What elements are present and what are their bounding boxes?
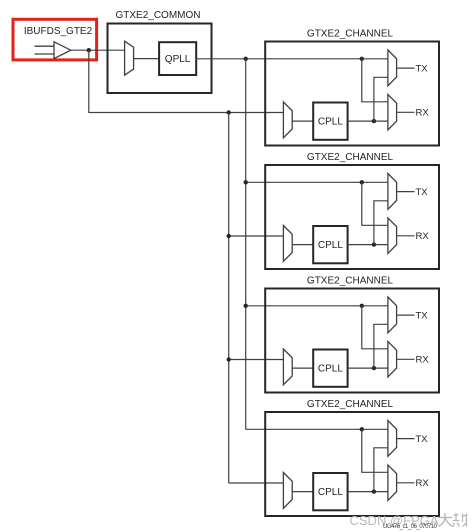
wire QPLL branch to RX mux ch1: [362, 59, 388, 102]
svg-text:TX: TX: [416, 64, 429, 75]
junction QPLL feed ch4: [360, 427, 364, 431]
wire refclk feed channel 3: [229, 359, 284, 361]
junction CPLL output ch2: [372, 242, 376, 246]
wire RX output ch4: [397, 482, 415, 484]
wire CPLL branch to TX mux ch4: [374, 448, 388, 492]
wire refclk feed channel 2: [229, 235, 284, 237]
svg-text:GTXE2_CHANNEL: GTXE2_CHANNEL: [307, 399, 394, 410]
buffer IBUFDS_GTE2: [35, 42, 71, 59]
junction QPLL feed ch2: [360, 180, 364, 184]
mux TX clock ch3: [388, 297, 397, 333]
wire CPLL branch to TX mux ch3: [374, 324, 388, 368]
wire refclk feed channel 4: [229, 482, 284, 484]
wire refclk horizontal ch1: [89, 112, 284, 114]
junction refclk bus top: [227, 110, 231, 114]
mux TX clock ch1: [388, 50, 397, 86]
svg-text:GTXE2_COMMON: GTXE2_COMMON: [115, 10, 200, 21]
junction QPLL bus channel 2: [244, 180, 248, 184]
svg-text:RX: RX: [416, 108, 430, 119]
mux TX clock ch2: [388, 174, 397, 210]
mux TX clock ch4: [388, 421, 397, 457]
svg-text:CPLL: CPLL: [318, 240, 343, 251]
box CPLL ch3: [313, 350, 347, 387]
wire buffer output to common mux: [71, 49, 125, 51]
junction refclk bus channel 3: [227, 357, 231, 361]
wire RX output ch3: [397, 358, 415, 360]
junction refclk bus channel 2: [227, 234, 231, 238]
junction QPLL bus channel 3: [244, 304, 248, 308]
junction QPLL feed ch1: [360, 57, 364, 61]
svg-text:IBUFDS_GTE2: IBUFDS_GTE2: [24, 26, 93, 37]
wire CPLL output ch2: [348, 244, 388, 246]
mux CPLL refclk select ch1: [283, 102, 292, 138]
svg-text:CPLL: CPLL: [318, 364, 343, 375]
wire mux to CPLL ch2: [292, 244, 313, 246]
wire CPLL branch to TX mux ch2: [374, 201, 388, 245]
wire CPLL output ch4: [348, 491, 388, 493]
wire QPLL feed channel 2: [246, 181, 388, 183]
wire refclk vertical bus: [228, 113, 230, 484]
wire CPLL branch to TX mux ch1: [374, 77, 388, 121]
box GTXE2_CHANNEL 4: [265, 412, 439, 516]
mux RX clock ch4: [388, 465, 397, 501]
svg-text:GTXE2_CHANNEL: GTXE2_CHANNEL: [307, 29, 394, 40]
mux RX clock ch1: [388, 94, 397, 129]
wire RX output ch2: [397, 235, 415, 237]
box QPLL: [159, 42, 196, 75]
wire refclk drop down: [88, 50, 90, 113]
watermark glyph SHU: [453, 513, 467, 527]
wire TX output ch2: [397, 191, 415, 193]
svg-text:CPLL: CPLL: [318, 117, 343, 128]
wire mux to CPLL ch4: [292, 491, 313, 493]
box CPLL ch4: [313, 473, 347, 510]
wire QPLL branch to RX mux ch4: [362, 429, 388, 472]
mux CPLL refclk select ch2: [283, 226, 292, 262]
box GTXE2_CHANNEL 2: [265, 165, 439, 269]
mux RX clock ch3: [388, 341, 397, 377]
wire QPLL output bus horizontal ch1: [196, 58, 388, 60]
wire TX output ch4: [397, 438, 415, 440]
svg-text:TX: TX: [416, 187, 429, 198]
wire QPLL vertical bus: [245, 59, 247, 430]
mux CPLL refclk select ch3: [283, 349, 292, 385]
box CPLL ch1: [313, 103, 347, 140]
svg-text:GTXE2_CHANNEL: GTXE2_CHANNEL: [307, 152, 394, 163]
junction CPLL output ch4: [372, 489, 376, 493]
svg-text:GTXE2_CHANNEL: GTXE2_CHANNEL: [307, 276, 394, 287]
svg-text:TX: TX: [416, 311, 429, 322]
wire CPLL output ch3: [348, 367, 388, 369]
wire QPLL branch to RX mux ch3: [362, 306, 388, 349]
highlight box around IBUFDS_GTE2: [13, 19, 97, 60]
mux refclk select (common): [125, 41, 134, 75]
svg-text:RX: RX: [416, 355, 430, 366]
svg-text:CPLL: CPLL: [318, 487, 343, 498]
box GTXE2_COMMON: [108, 24, 212, 94]
svg-text:RX: RX: [416, 478, 430, 489]
junction QPLL bus top: [244, 57, 248, 61]
box CPLL ch2: [313, 226, 347, 263]
svg-text:UG476_c1_06_070710: UG476_c1_06_070710: [383, 524, 438, 530]
svg-text:RX: RX: [416, 231, 430, 242]
watermark glyph DA: [438, 513, 453, 527]
svg-text:QPLL: QPLL: [165, 54, 191, 65]
wire common mux to QPLL: [134, 58, 160, 60]
wire QPLL feed channel 4: [246, 428, 388, 430]
wire mux to CPLL ch1: [292, 120, 313, 122]
wire QPLL branch to RX mux ch2: [362, 182, 388, 225]
junction QPLL feed ch3: [360, 304, 364, 308]
wire QPLL feed channel 3: [246, 305, 388, 307]
wire TX output ch1: [397, 67, 415, 69]
mux CPLL refclk select ch4: [283, 473, 292, 509]
junction CPLL output ch3: [372, 366, 376, 370]
junction CPLL output ch1: [372, 119, 376, 123]
box GTXE2_CHANNEL 1: [265, 42, 439, 146]
svg-text:TX: TX: [416, 434, 429, 445]
wire CPLL output ch1: [348, 120, 388, 122]
wire RX output ch1: [397, 111, 415, 113]
box GTXE2_CHANNEL 3: [265, 289, 439, 393]
wire mux to CPLL ch3: [292, 367, 313, 369]
wire TX output ch3: [397, 314, 415, 316]
junction buffer output: [87, 48, 91, 52]
mux RX clock ch2: [388, 218, 397, 254]
